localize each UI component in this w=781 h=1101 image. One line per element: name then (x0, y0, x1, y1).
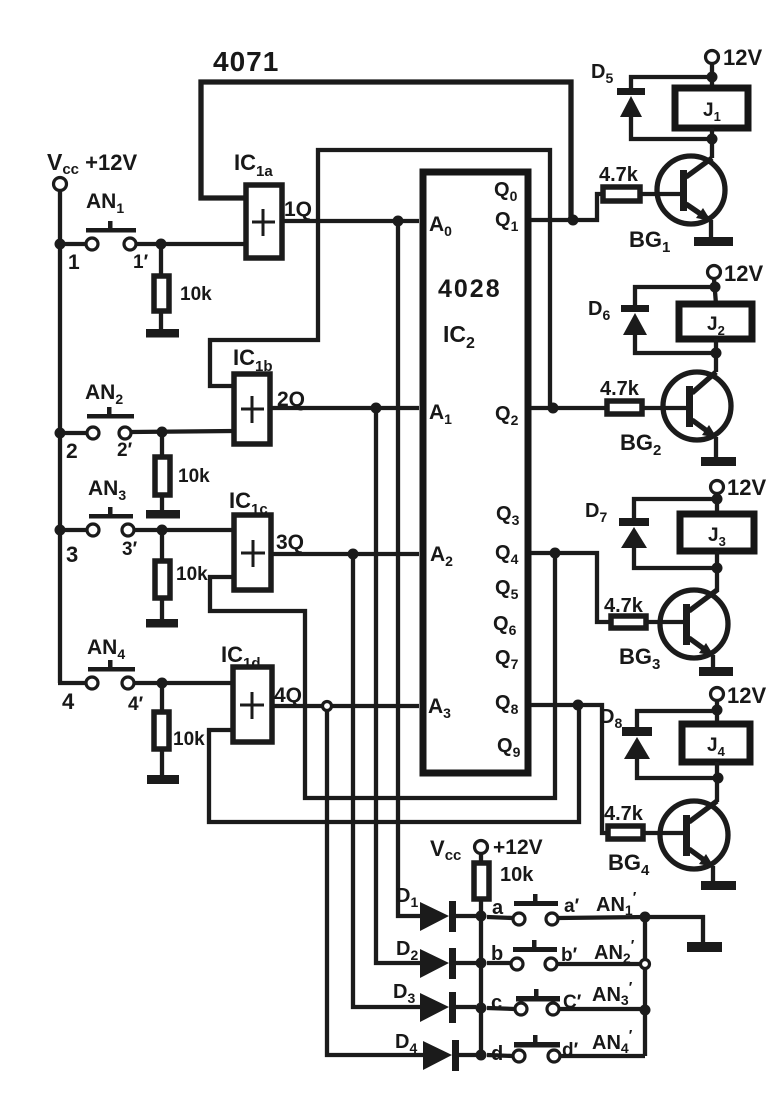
svg-text:10k: 10k (176, 564, 208, 585)
resistor 10k (AN1) (159, 244, 163, 276)
wire AN3 to IC1c (134, 528, 233, 532)
node Q2 feedback junction (548, 403, 559, 414)
pushbutton AN1' (514, 901, 558, 906)
svg-text:3Q: 3Q (276, 531, 304, 554)
wire J3 to BG3 collector (715, 551, 719, 592)
wire AN2 left (63, 431, 87, 435)
wire AN3 left (63, 528, 87, 532)
node b' rail junction (641, 960, 650, 969)
wire Q4 output (531, 553, 611, 622)
node c' rail junction (640, 1005, 651, 1016)
wire Q2 output (531, 406, 607, 410)
resistor 10k (AN3) (160, 530, 164, 561)
resistor 4.7k (BG2) (607, 401, 642, 414)
node 2Q junction (371, 403, 382, 414)
wire 2Q to D2 (376, 408, 420, 963)
node d dot (476, 1050, 487, 1061)
svg-text:4.7k: 4.7k (599, 164, 639, 186)
svg-text:12V: 12V (723, 45, 762, 70)
svg-text:C′: C′ (563, 992, 582, 1013)
ground (BG4) (701, 881, 736, 890)
wire IC1c output to A2 (272, 552, 419, 556)
node 2 dot (55, 428, 66, 439)
resistor 10k (AN2) (160, 432, 164, 457)
node Q1 feedback junction (568, 215, 579, 226)
supply 12V (block 1) (706, 51, 719, 64)
ground (BG1) (694, 237, 733, 246)
svg-text:10k: 10k (178, 466, 210, 487)
supply 12V (block 2) (708, 266, 721, 279)
wire feedback Q1 to IC1a (4071 top line) (201, 82, 571, 218)
svg-text:12V: 12V (727, 683, 766, 708)
relay J4 (682, 724, 750, 762)
pushbutton AN4' (514, 1042, 560, 1048)
wire IC1b output to A1 (271, 406, 419, 410)
svg-text:d′: d′ (562, 1040, 579, 1061)
transistor BG1 (657, 156, 725, 224)
wire R4 to BG4 base (643, 831, 683, 835)
wire to matrix ground (645, 917, 703, 944)
svg-text:3′: 3′ (122, 539, 138, 560)
wire J2 to BG2 collector (714, 339, 718, 372)
ground (matrix) (687, 942, 722, 952)
wire Q1 output (531, 194, 603, 220)
supply 12V (block 4) (711, 688, 724, 701)
wire J4 to BG4 collector (715, 762, 719, 802)
wire J1 to BG1 collector (710, 128, 714, 158)
supply terminal Vcc matrix (475, 841, 488, 854)
wire IC1a output to A0 (283, 219, 419, 223)
svg-text:c: c (491, 992, 502, 1014)
wire AN2 to IC1b (131, 431, 234, 432)
wire feedback Q8 to IC1d (209, 702, 579, 822)
ground (AN3 resistor) (146, 619, 178, 628)
wire 3Q to D3 (353, 554, 420, 1007)
node c dot (476, 1003, 487, 1014)
relay J1 (675, 88, 748, 128)
wire matrix left rail (479, 899, 483, 1056)
ground (AN4 resistor) (147, 775, 179, 784)
transistor BG3 (660, 590, 728, 658)
svg-text:4071: 4071 (213, 46, 279, 77)
resistor 10k (matrix) (479, 854, 483, 863)
transistor BG2 (663, 372, 731, 440)
IC 4028 IC2 box (423, 172, 528, 773)
node 1' junction (156, 239, 167, 250)
ground (AN2 resistor) (146, 510, 180, 519)
supply terminal Vcc (54, 178, 67, 191)
supply 12V (block 3) (711, 481, 724, 494)
svg-text:2: 2 (66, 440, 78, 463)
node 3 dot (55, 525, 66, 536)
node 1Q junction (393, 216, 404, 227)
pushbutton AN3' (516, 996, 560, 1002)
svg-text:1Q: 1Q (284, 198, 312, 221)
svg-text:10k: 10k (180, 284, 212, 305)
svg-text:4.7k: 4.7k (604, 803, 644, 825)
svg-text:1: 1 (68, 251, 80, 274)
svg-text:4Q: 4Q (274, 684, 302, 707)
svg-text:4028: 4028 (438, 275, 502, 303)
ground (BG3) (699, 667, 733, 676)
wire matrix right rail (643, 917, 647, 1056)
svg-text:10k: 10k (173, 729, 205, 750)
node 3' junction (157, 525, 168, 536)
resistor 4.7k (BG1) (603, 187, 640, 201)
relay J3 (680, 514, 754, 551)
svg-text:4.7k: 4.7k (600, 378, 640, 400)
svg-text:10k: 10k (500, 864, 534, 886)
wire AN1 to IC1a (137, 242, 245, 246)
wire R3 to BG3 base (646, 620, 683, 624)
wire IC1d output to A3 (273, 704, 419, 708)
wire feedback Q4 to IC1c (210, 551, 555, 798)
svg-text:1′: 1′ (133, 252, 149, 273)
node a dot (476, 911, 487, 922)
relay J2 (679, 304, 752, 339)
svg-text:2′: 2′ (117, 440, 133, 461)
wire 1Q to D1 (398, 221, 420, 916)
svg-text:b′: b′ (561, 945, 578, 966)
wire R2 to BG2 base (642, 406, 686, 410)
svg-text:a′: a′ (564, 896, 580, 917)
svg-text:4.7k: 4.7k (604, 595, 644, 617)
node b dot (476, 958, 487, 969)
node a' rail junction (640, 912, 651, 923)
resistor 10k (AN4) (160, 683, 164, 712)
svg-text:3: 3 (66, 542, 78, 567)
wire AN4 to IC1d (134, 681, 232, 685)
node 4' junction (157, 678, 168, 689)
wire AN4 left (rail corner) (58, 681, 86, 685)
node 2' junction (157, 427, 168, 438)
svg-text:4: 4 (62, 689, 75, 714)
ground (AN1 resistor) (146, 329, 179, 338)
ground (BG2) (701, 457, 736, 466)
wire left rail (58, 191, 62, 683)
svg-text:+12V: +12V (493, 836, 543, 859)
svg-text:12V: 12V (727, 475, 766, 500)
wire R1 to BG1 base (640, 192, 681, 196)
pushbutton AN2' (513, 947, 557, 952)
wire Q8 output (531, 705, 608, 833)
wire AN1 left (63, 242, 85, 246)
resistor 4.7k (BG4) (608, 826, 643, 839)
transistor BG4 (660, 801, 728, 869)
wire 4Q to D4 (327, 710, 423, 1055)
node 4Q junction (323, 702, 332, 711)
wire feedback Q2 to IC1b (210, 150, 550, 406)
node 1 dot (55, 239, 66, 250)
svg-text:12V: 12V (724, 261, 763, 286)
resistor 4.7k (BG3) (611, 616, 646, 628)
node Q8 feedback junction (573, 700, 584, 711)
svg-text:Vcc +12V: Vcc +12V (47, 149, 137, 178)
node Q4 feedback junction (550, 548, 561, 559)
node 3Q junction (348, 549, 359, 560)
svg-text:4′: 4′ (128, 694, 144, 715)
